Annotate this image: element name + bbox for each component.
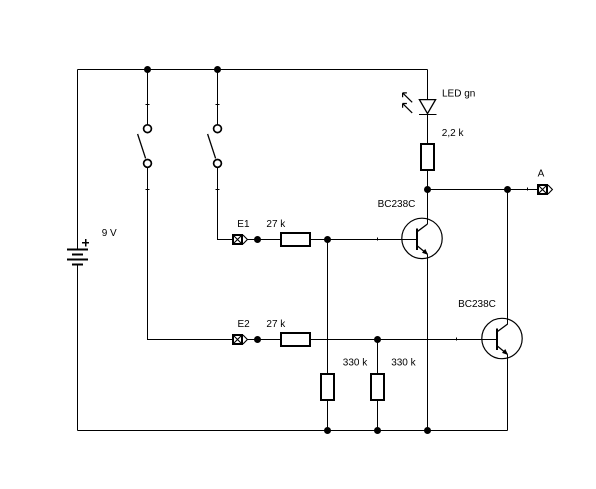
pin tick terminal A	[527, 188, 529, 191]
wire left rail battery top	[77, 70, 79, 250]
label BC238C lower	[458, 299, 496, 310]
svg-text:BC238C: BC238C	[458, 299, 496, 310]
wire resistor to Q2 base	[310, 339, 497, 341]
resistor 27k upper	[281, 233, 310, 246]
label 2,2 k	[442, 128, 465, 139]
junction dot E2 node	[254, 336, 261, 343]
label LED gn	[442, 89, 475, 100]
wire 330k right to ground rail	[377, 400, 379, 431]
junction dot E1 node	[254, 236, 261, 243]
svg-text:9 V: 9 V	[102, 228, 117, 239]
svg-text:27 k: 27 k	[266, 219, 286, 230]
pin tick S1 bottom	[146, 189, 150, 191]
wire E2 to resistor	[247, 339, 282, 341]
label E1	[237, 219, 250, 230]
label 330 k right	[391, 358, 416, 369]
wire 2,2k to collector node	[427, 170, 429, 190]
LED light arrow lower	[403, 104, 413, 113]
junction dot 330k left ground	[324, 427, 331, 434]
pin tick Q2 base	[456, 338, 458, 341]
junction dot top rail S2	[214, 66, 221, 73]
label E2	[238, 319, 251, 330]
junction dot base divider node 2	[374, 336, 381, 343]
wire LED cathode to resistor 2,2k	[427, 115, 429, 145]
switch S2	[208, 125, 222, 168]
wire Q2 emitter to ground rail corner	[507, 354, 509, 430]
wire E1 to resistor	[247, 239, 282, 241]
svg-text:LED gn: LED gn	[442, 89, 475, 100]
junction dot Q2 collector node	[504, 186, 511, 193]
wire collector node to output A	[428, 189, 539, 191]
wire divider node2 down to 330k	[377, 340, 379, 375]
label 330 k left	[343, 358, 368, 369]
LED light arrow upper	[403, 93, 413, 102]
wire top rail down to LED anode	[427, 70, 429, 100]
LED D1	[419, 100, 437, 115]
pin tick S2 top	[216, 104, 220, 106]
transistor Q2 BC238C	[482, 318, 522, 358]
battery 9V	[67, 249, 88, 264]
terminal A	[538, 185, 553, 195]
wire Q1 emitter to ground rail	[427, 254, 429, 430]
terminal E1	[233, 235, 248, 245]
junction dot 330k right ground	[374, 427, 381, 434]
svg-text:27 k: 27 k	[266, 319, 286, 330]
wire S1 to E2 input line	[148, 168, 233, 340]
wire Q2 collector vertical	[507, 190, 509, 325]
resistor 27k lower	[281, 333, 310, 346]
junction dot Q1 collector node	[424, 186, 431, 193]
label 9 V	[102, 228, 117, 239]
battery plus sign	[82, 239, 89, 246]
wire divider node1 down to 330k	[327, 240, 329, 375]
label 27 k upper	[266, 219, 286, 230]
terminal E2	[233, 335, 248, 345]
wire left rail battery bottom to ground rail	[77, 264, 79, 430]
junction dot top rail S1	[144, 66, 151, 73]
wire bottom ground rail	[78, 430, 508, 432]
svg-text:330 k: 330 k	[391, 358, 416, 369]
svg-text:E1: E1	[237, 219, 250, 230]
svg-text:A: A	[538, 168, 545, 179]
wire 330k left to ground rail	[327, 400, 329, 431]
resistor 330k left	[321, 374, 334, 400]
svg-text:BC238C: BC238C	[378, 199, 416, 210]
junction dot Q1 emitter ground	[424, 427, 431, 434]
wire Q1 collector vertical	[427, 190, 429, 225]
pin tick S1 top	[146, 104, 150, 106]
junction dot base divider node 1	[324, 236, 331, 243]
wire switch S1 top lead	[147, 70, 149, 125]
transistor Q1 BC238C	[402, 218, 442, 258]
wire switch S2 top lead	[217, 70, 219, 125]
label BC238C upper	[378, 199, 416, 210]
resistor 2,2k	[421, 144, 434, 170]
wire top rail from battery+ to LED branch	[78, 69, 428, 71]
svg-text:330 k: 330 k	[343, 358, 368, 369]
wire S2 to E1 input line	[218, 168, 233, 240]
svg-text:E2: E2	[238, 319, 251, 330]
pin tick S2 bottom	[216, 189, 220, 191]
wire resistor to Q1 base	[310, 239, 417, 241]
svg-text:2,2 k: 2,2 k	[442, 128, 465, 139]
switch S1	[138, 125, 152, 168]
pin tick Q1 base	[377, 238, 379, 241]
label 27 k lower	[266, 319, 286, 330]
resistor 330k right	[371, 374, 384, 400]
label A	[538, 168, 545, 179]
